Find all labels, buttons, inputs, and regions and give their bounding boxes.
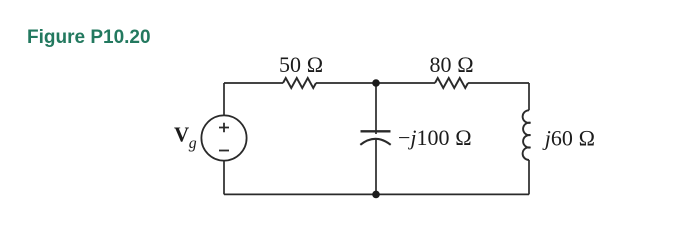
capacitor bottom lead: [375, 139, 377, 194]
node a junction dot: [372, 79, 380, 87]
wire: node a to R2: [376, 82, 435, 84]
wire: R1 to node a: [316, 82, 376, 84]
wire: inductor to bottom-right corner: [528, 160, 530, 195]
capacitor curved bottom plate: [360, 139, 390, 145]
wire: R2 to top-right corner: [468, 82, 529, 84]
wire: top rail left (corner to R1): [224, 82, 283, 84]
title Figure P10.20: [27, 27, 151, 49]
capacitor top lead: [375, 83, 377, 134]
plus sign inside source: [219, 123, 229, 133]
wire: left vertical top (source to top-left corner): [223, 83, 225, 115]
node b junction dot: [372, 191, 380, 199]
inductor L1 coil j60: [523, 110, 531, 160]
svg-text:V: V: [174, 122, 189, 146]
svg-text:j60 Ω: j60 Ω: [542, 125, 596, 150]
wire: bottom-left corner up to source: [223, 161, 225, 195]
svg-text:50 Ω: 50 Ω: [279, 52, 323, 77]
svg-text:−j100 Ω: −j100 Ω: [398, 125, 472, 150]
svg-text:80 Ω: 80 Ω: [430, 52, 474, 77]
wire: right vertical to inductor: [528, 83, 530, 110]
resistor 50 ohm zigzag: [283, 78, 316, 88]
resistor 80 ohm zigzag: [435, 78, 468, 88]
capacitor top plate: [361, 130, 391, 132]
wire: bottom rail: [224, 193, 529, 195]
svg-text:g: g: [189, 135, 197, 152]
voltage source V_g circle: [201, 115, 246, 160]
minus sign inside source: [219, 150, 229, 152]
